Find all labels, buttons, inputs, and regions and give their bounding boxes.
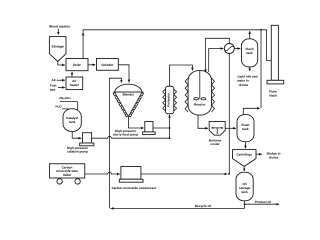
preheater	[166, 86, 174, 114]
wire flash tank 1 overhead to flare header	[249, 31, 251, 39]
reactor	[188, 71, 211, 116]
wire compressor discharge to interchanger riser	[141, 173, 227, 175]
wire reactor bottoms to bottoms cooler	[198, 115, 208, 128]
svg-text:Carbon monoxide compressor: Carbon monoxide compressor	[112, 186, 158, 190]
high-pressure catalyst pump	[83, 133, 92, 143]
flare stack	[271, 25, 278, 80]
svg-text:cooler: cooler	[210, 142, 220, 146]
wire interchanger to flash tank 1	[234, 48, 240, 50]
wire catalyst tank to catalyst pump	[72, 132, 81, 139]
wire drier to grinder	[88, 64, 95, 66]
reactor agitator blades	[194, 98, 199, 100]
interchanger (gas heat exchanger)	[224, 44, 234, 54]
preheater coil left	[163, 89, 166, 111]
svg-text:Blender: Blender	[123, 92, 135, 96]
svg-text:drums: drums	[239, 83, 249, 87]
node junction flash2 overhead and flare header	[260, 29, 262, 31]
wire Na2CO3 feed into catalyst tank	[60, 101, 78, 110]
wire product oil	[245, 203, 279, 205]
wire flash tank 1 bottoms	[249, 67, 251, 71]
wire catalyst pump discharge to preheater riser (hop over recycle riser)	[92, 136, 170, 138]
wire blender to slurry pump	[128, 117, 143, 129]
blender cone left sawtooth edge	[115, 92, 143, 116]
svg-text:water to: water to	[236, 79, 249, 83]
wire grinder to blender	[118, 65, 129, 83]
blender	[115, 84, 143, 92]
blender cone right sawtooth edge	[129, 93, 144, 117]
node junction slurry line riser	[169, 127, 171, 129]
node junction product tee	[244, 203, 246, 205]
svg-text:Product oil: Product oil	[255, 200, 271, 204]
wire fuel gas feed	[58, 87, 65, 89]
node junction catalyst line riser	[169, 137, 171, 139]
svg-text:trailer: trailer	[63, 173, 72, 177]
svg-text:Drier: Drier	[73, 63, 81, 67]
svg-text:slurry feed pump: slurry feed pump	[113, 133, 138, 137]
centrifuge	[233, 150, 257, 167]
wire flare header	[83, 30, 271, 61]
wire flash tank 2 overhead to flare header	[243, 108, 259, 114]
svg-text:Preheater: Preheater	[167, 92, 171, 107]
wire slurry pump discharge	[153, 127, 170, 129]
svg-text:tank: tank	[246, 51, 253, 55]
wire wood wastes feed into storage	[57, 29, 59, 35]
storage hopper	[49, 37, 66, 62]
svg-text:H₂O: H₂O	[56, 105, 63, 109]
flash tank 1	[242, 39, 258, 67]
svg-text:Reactor: Reactor	[194, 103, 206, 107]
wire CO trailer to compressor (hop over recycle riser)	[85, 172, 120, 174]
reactor coil left	[185, 78, 188, 112]
wire centrifuge to oil storage tank	[243, 166, 245, 171]
svg-text:Centrifuge: Centrifuge	[236, 153, 252, 157]
svg-text:catalyst pump: catalyst pump	[67, 150, 88, 154]
preheater coil right	[174, 89, 177, 111]
svg-text:gas: gas	[50, 87, 56, 91]
svg-text:Recycle oil: Recycle oil	[195, 204, 211, 208]
carbon monoxide tube trailer	[50, 164, 85, 178]
wire riser to preheater	[169, 115, 171, 138]
wire drier vent to flare header	[82, 33, 84, 59]
svg-text:tank: tank	[241, 190, 248, 194]
svg-text:tank: tank	[242, 127, 249, 131]
svg-text:Grinder: Grinder	[101, 63, 114, 67]
bottoms cooler agitator	[212, 128, 223, 134]
drier	[66, 59, 88, 71]
svg-text:Storage: Storage	[52, 44, 64, 48]
wire reactor overhead to interchanger	[209, 49, 224, 73]
flash tank 2	[237, 115, 254, 142]
wire H2O feed into catalyst tank	[62, 109, 71, 112]
wire air feed	[57, 79, 65, 81]
svg-text:stack: stack	[269, 93, 277, 97]
node junction CO riser corner	[228, 173, 230, 175]
svg-text:Wood wastes: Wood wastes	[49, 24, 70, 28]
svg-text:drums: drums	[269, 155, 279, 159]
wire oil tank outlet stub	[244, 201, 246, 209]
wire flash tank 2 bottoms to centrifuge	[244, 142, 246, 149]
wire air heater to drier	[71, 72, 73, 77]
wire bottoms cooler to flash tank 2	[225, 127, 236, 129]
reactor coil right	[212, 78, 215, 112]
grinder	[97, 59, 119, 71]
catalyst tank	[63, 109, 81, 132]
blender ribbon teeth left	[113, 93, 128, 117]
oil storage tank	[236, 172, 253, 201]
svg-text:heater: heater	[70, 83, 80, 87]
wire sludge to drums	[256, 153, 262, 155]
wire interchanger return to reactor	[206, 38, 230, 72]
wire CO feed riser to interchanger	[228, 54, 230, 175]
wire storage to drier	[58, 62, 65, 66]
svg-text:Na₂CO₃: Na₂CO₃	[60, 96, 72, 100]
svg-text:tank: tank	[69, 120, 76, 124]
reactor agitator shaft	[199, 71, 201, 99]
wire recycle oil riser to blender	[110, 78, 122, 208]
wire preheater to reactor	[170, 65, 193, 86]
bottoms cooler	[209, 121, 225, 135]
high-pressure slurry feed pump	[145, 122, 153, 132]
air heater	[66, 77, 83, 90]
carbon monoxide compressor	[121, 167, 141, 180]
wire recycle oil	[111, 207, 245, 209]
